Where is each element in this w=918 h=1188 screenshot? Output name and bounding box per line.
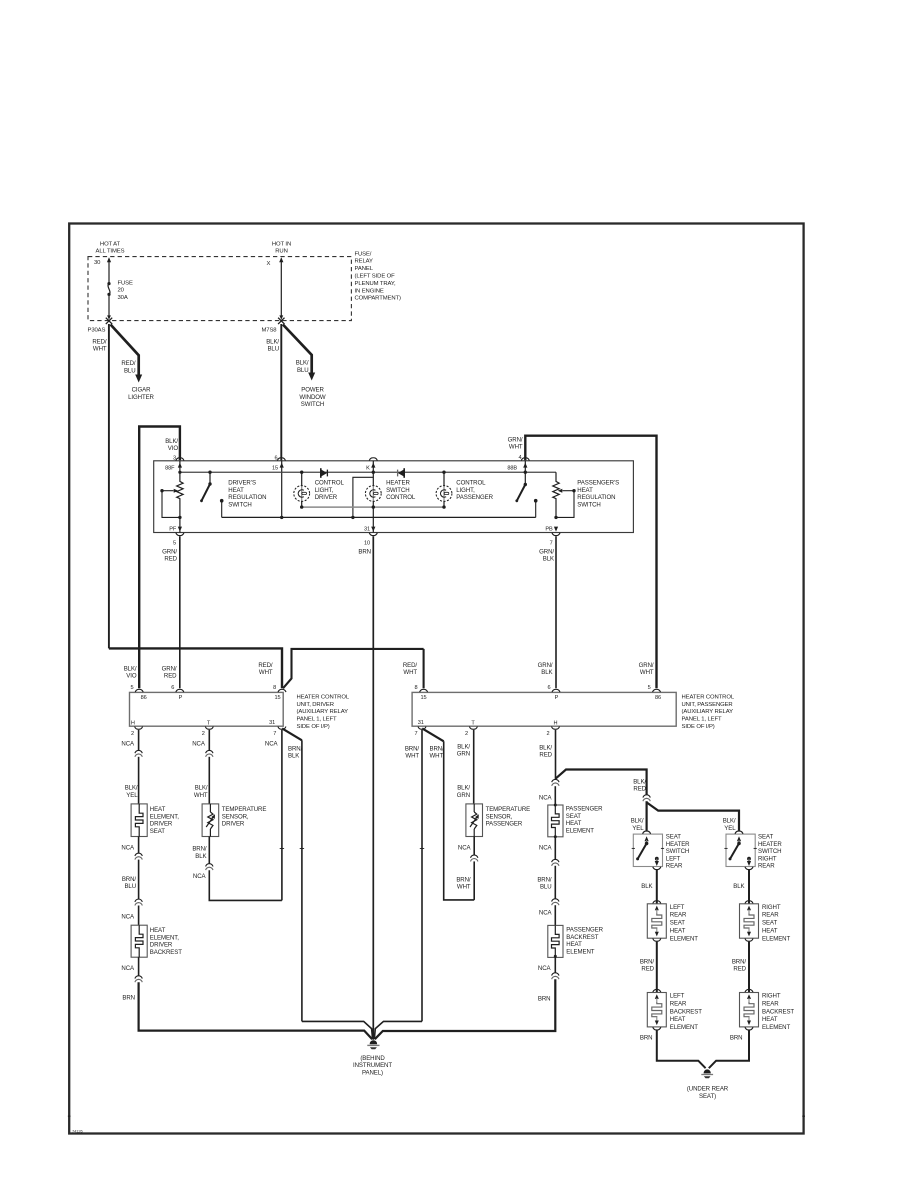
svg-text:ELEMENT: ELEMENT <box>566 828 594 835</box>
svg-text:PB: PB <box>545 527 553 533</box>
wire BRN/WHT passenger pin7 to ground <box>374 730 424 1039</box>
label CONTROL LIGHT, DRIVER <box>315 479 345 501</box>
svg-text:BLU: BLU <box>297 367 309 374</box>
svg-text:HOT AT: HOT AT <box>100 242 121 248</box>
label pin 4 <box>518 455 521 461</box>
label BRN passenger <box>538 996 551 1003</box>
heater control unit passenger box <box>412 692 676 726</box>
svg-text:ELEMENT,: ELEMENT, <box>150 813 179 820</box>
svg-text:SWITCH: SWITCH <box>301 401 324 408</box>
svg-text:BLK: BLK <box>541 669 552 676</box>
svg-text:SEAT: SEAT <box>666 834 681 841</box>
svg-text:LEFT: LEFT <box>670 904 685 911</box>
pin 31 internal <box>364 527 375 533</box>
wire sensor passenger return <box>473 837 475 900</box>
svg-text:ALL TIMES: ALL TIMES <box>96 249 125 255</box>
svg-text:PANEL 1, LEFT: PANEL 1, LEFT <box>682 717 722 723</box>
wire BLK/BLU from M7S8 to switch box pin 6 <box>280 324 282 461</box>
svg-text:WHT: WHT <box>93 346 107 353</box>
passenger unit pin 8 <box>414 685 427 701</box>
svg-text:ELEMENT,: ELEMENT, <box>150 934 179 941</box>
svg-text:M7S8: M7S8 <box>262 327 278 333</box>
heat element driver seat <box>131 804 147 837</box>
svg-text:TEMPERATURE: TEMPERATURE <box>222 806 267 813</box>
wire terminal X to M7S8 <box>279 257 283 320</box>
driver unit bottom pin 2 mid <box>202 727 214 738</box>
svg-text:WHT: WHT <box>509 444 523 451</box>
svg-text:HEATER CONTROL: HEATER CONTROL <box>682 695 735 701</box>
svg-text:PASSENGER’S: PASSENGER’S <box>577 479 619 486</box>
svg-text:HEAT: HEAT <box>566 941 582 948</box>
svg-text:2: 2 <box>131 731 134 737</box>
svg-text:HEATER CONTROL: HEATER CONTROL <box>297 695 350 701</box>
temperature sensor driver <box>202 804 219 837</box>
svg-text:BRN: BRN <box>122 995 135 1002</box>
label NCA above backrest <box>121 913 135 920</box>
driver's heat regulation switch resistor <box>177 472 183 517</box>
label BRN/RED left <box>640 958 655 972</box>
svg-text:TEMPERATURE: TEMPERATURE <box>486 806 531 813</box>
label NCA above passenger backrest <box>539 910 553 917</box>
svg-text:ELEMENT: ELEMENT <box>670 1024 698 1031</box>
svg-text:GRN/: GRN/ <box>639 662 654 669</box>
svg-text:BLK/: BLK/ <box>296 360 309 367</box>
svg-text:NCA: NCA <box>265 741 279 748</box>
driver unit bottom pin 2 left <box>131 727 143 738</box>
label PASSENGER BACKREST HEAT ELEMENT <box>566 926 603 955</box>
svg-text:RED/: RED/ <box>121 360 136 367</box>
in-line connector passenger BRN <box>552 973 559 980</box>
in-line connector BRN/BLU upper <box>135 853 142 860</box>
wire GRN/WHT pin4 riser to passenger unit pin5 <box>525 436 656 689</box>
svg-text:BRN/: BRN/ <box>732 958 747 965</box>
svg-text:BLU: BLU <box>124 367 136 374</box>
label BLK/YEL left <box>631 818 645 832</box>
svg-text:BLK: BLK <box>543 556 554 563</box>
label BRN/WHT passenger sensor <box>456 877 471 891</box>
label HOT IN RUN <box>272 242 291 255</box>
wire RED/BLU branch to cigar lighter <box>111 325 143 383</box>
label NCA passenger seat <box>539 794 553 801</box>
svg-text:LEFT: LEFT <box>670 993 685 1000</box>
svg-text:30A: 30A <box>118 295 128 301</box>
in-line connector passenger BRN/BLU lower <box>552 899 559 906</box>
svg-text:SEAT: SEAT <box>762 920 777 927</box>
svg-text:15: 15 <box>272 465 278 471</box>
ground behind instrument panel <box>367 1041 379 1050</box>
svg-text:NCA: NCA <box>539 910 553 917</box>
svg-text:6: 6 <box>171 685 174 691</box>
svg-text:BLK/: BLK/ <box>457 743 470 750</box>
svg-text:7: 7 <box>273 731 276 737</box>
diode CR2 <box>398 468 405 478</box>
svg-text:K: K <box>366 465 370 471</box>
svg-text:HEAT: HEAT <box>670 1016 686 1023</box>
svg-text:YEL: YEL <box>126 792 138 799</box>
svg-text:IN ENGINE: IN ENGINE <box>355 288 384 294</box>
svg-text:PASSENGER: PASSENGER <box>566 805 603 812</box>
pin 10 connector arc <box>364 533 377 547</box>
label BLK right <box>733 883 744 890</box>
wire driver seat to backrest <box>138 837 140 926</box>
label BRN <box>358 548 371 555</box>
label PASSENGER'S HEAT REGULATION SWITCH <box>577 479 619 508</box>
svg-text:2: 2 <box>465 731 468 737</box>
wire BRN left rear to ground <box>657 1030 706 1068</box>
svg-text:31: 31 <box>418 720 424 726</box>
svg-text:7: 7 <box>550 541 553 547</box>
label NCA driver seat <box>121 741 135 748</box>
svg-text:NCA: NCA <box>539 794 553 801</box>
right rear backrest heat element <box>740 989 795 1031</box>
svg-text:ELEMENT: ELEMENT <box>762 935 790 942</box>
label BRN/BLU <box>122 876 137 890</box>
svg-text:15: 15 <box>420 695 426 701</box>
wire BLK/YEL right rear switch feed <box>647 802 739 830</box>
in-line connector passenger sensor <box>471 855 478 862</box>
label TEMPERATURE SENSOR PASSENGER <box>486 806 531 828</box>
svg-text:PF: PF <box>169 527 177 533</box>
svg-text:WHT: WHT <box>259 669 273 676</box>
driver unit pin 31 <box>269 720 275 726</box>
svg-text:UNIT, DRIVER: UNIT, DRIVER <box>297 702 334 708</box>
label pin 6 top <box>274 455 277 461</box>
svg-text:LIGHT,: LIGHT, <box>456 487 475 494</box>
svg-text:31: 31 <box>364 527 370 533</box>
label GRN/BLK <box>539 548 554 562</box>
control light driver lamp <box>294 472 310 507</box>
svg-text:FUSE/: FUSE/ <box>355 251 372 257</box>
in-line connector sensor return <box>206 864 213 871</box>
svg-text:NCA: NCA <box>458 844 472 851</box>
svg-text:NCA: NCA <box>192 741 206 748</box>
svg-text:HEAT: HEAT <box>228 487 244 494</box>
svg-text:RED/: RED/ <box>92 339 107 346</box>
label NCA passenger sensor <box>458 844 472 851</box>
passenger backrest heat element <box>548 925 563 957</box>
label BRN/BLU passenger <box>537 877 552 891</box>
svg-text:PANEL 1, LEFT: PANEL 1, LEFT <box>297 717 337 723</box>
svg-text:WHT: WHT <box>403 669 417 676</box>
passenger unit bottom pin 2 left <box>465 727 477 738</box>
svg-text:CIGAR: CIGAR <box>132 387 151 394</box>
svg-text:PASSENGER: PASSENGER <box>456 494 493 501</box>
svg-text:INSTRUMENT: INSTRUMENT <box>353 1062 392 1069</box>
svg-text:SEAT: SEAT <box>758 834 773 841</box>
svg-text:RIGHT: RIGHT <box>758 855 777 862</box>
svg-text:BACKREST: BACKREST <box>762 1008 794 1015</box>
wire BLK right rear <box>748 870 750 904</box>
svg-text:BLK: BLK <box>195 853 206 860</box>
svg-text:NCA: NCA <box>539 844 553 851</box>
wire K bus <box>178 471 556 474</box>
wire BLK/RED from passenger pin2 <box>555 730 557 779</box>
label pin 3 <box>173 455 176 461</box>
wire BLK/YEL left rear switch feed <box>645 801 647 830</box>
svg-text:DRIVER: DRIVER <box>150 821 173 828</box>
label UNDER REAR SEAT <box>687 1086 729 1100</box>
svg-text:2: 2 <box>202 731 205 737</box>
svg-text:BLU: BLU <box>540 884 552 891</box>
svg-text:20: 20 <box>118 288 125 294</box>
passenger's heat regulation switch contact <box>534 499 538 518</box>
node 88F internal bus <box>165 461 182 472</box>
diode CR1 <box>321 468 328 478</box>
svg-text:HEAT: HEAT <box>150 927 166 934</box>
left rear backrest heat element <box>647 989 702 1031</box>
svg-text:WHT: WHT <box>194 792 208 799</box>
label BLK/RED <box>539 744 552 758</box>
label BLK/BLU branch <box>296 360 309 374</box>
svg-text:(UNDER REAR: (UNDER REAR <box>687 1086 729 1093</box>
svg-text:PANEL: PANEL <box>355 266 374 272</box>
svg-text:BLK/: BLK/ <box>195 785 208 792</box>
wire BLK/GRN to passenger sensor <box>473 730 475 804</box>
svg-text:HEAT: HEAT <box>150 806 166 813</box>
svg-text:LIGHTER: LIGHTER <box>128 394 154 401</box>
svg-text:HEAT: HEAT <box>762 928 778 935</box>
pin K connector arc <box>369 458 377 461</box>
wire BRN passenger backrest to ground <box>375 957 556 1039</box>
svg-text:BACKREST: BACKREST <box>150 949 182 956</box>
svg-text:BLK: BLK <box>733 883 744 890</box>
svg-text:BLK/: BLK/ <box>539 744 552 751</box>
passenger unit pin 6 <box>547 685 560 701</box>
svg-text:SIDE OF I/P): SIDE OF I/P) <box>682 724 715 730</box>
svg-text:SWITCH: SWITCH <box>758 848 781 855</box>
svg-text:8: 8 <box>414 685 417 691</box>
wire BRN right rear to ground <box>709 1030 749 1068</box>
label RED/WHT above passenger pin8 <box>403 662 418 676</box>
label POWER WINDOW SWITCH <box>299 387 325 408</box>
label NCA below passenger seat <box>539 844 553 851</box>
label FUSE 20 30A <box>118 280 133 301</box>
svg-text:SWITCH: SWITCH <box>577 502 600 509</box>
svg-text:RED/: RED/ <box>258 662 273 669</box>
in-line connector BRN <box>135 976 142 983</box>
svg-text:REGULATION: REGULATION <box>577 494 615 501</box>
svg-text:BRN/: BRN/ <box>537 877 552 884</box>
svg-text:CONTROL: CONTROL <box>386 494 416 501</box>
heater switch control box <box>154 461 634 533</box>
label BLK/GRN lower <box>457 785 471 799</box>
svg-text:SWITCH: SWITCH <box>228 502 251 509</box>
svg-text:BRN: BRN <box>730 1034 743 1041</box>
svg-text:BRN/: BRN/ <box>405 745 420 752</box>
svg-text:LEFT: LEFT <box>666 855 681 862</box>
wire GRN/BLK to passenger unit pin6 <box>555 536 557 688</box>
svg-text:88B: 88B <box>507 465 517 471</box>
label BLK/YEL <box>125 785 139 799</box>
temperature sensor passenger <box>466 804 483 837</box>
svg-text:SEAT: SEAT <box>566 813 581 820</box>
terminal 30 <box>94 260 101 266</box>
svg-text:BRN: BRN <box>640 1034 653 1041</box>
label BLK/VIO top <box>165 438 178 452</box>
svg-text:NCA: NCA <box>121 965 135 972</box>
svg-text:DRIVER: DRIVER <box>222 821 245 828</box>
passenger's heat regulation switch blade <box>515 472 527 502</box>
wire GRN/RED to driver unit pin6 <box>179 536 181 688</box>
svg-text:BLK/: BLK/ <box>631 818 644 825</box>
label GRN/WHT top <box>508 436 523 450</box>
wire BRN driver backrest to ground <box>139 957 373 1039</box>
svg-text:X: X <box>267 261 271 267</box>
label GRN/RED <box>162 548 178 562</box>
svg-text:DRIVER: DRIVER <box>315 494 338 501</box>
pin PB internal <box>545 527 558 533</box>
svg-text:SEAT: SEAT <box>150 828 165 835</box>
svg-text:BLU: BLU <box>124 883 136 890</box>
label NCA below backrest <box>121 965 135 972</box>
label BRN left rear <box>640 1034 653 1041</box>
svg-text:BLK: BLK <box>641 883 652 890</box>
svg-text:UNIT, PASSENGER: UNIT, PASSENGER <box>682 702 733 708</box>
svg-text:REAR: REAR <box>762 1000 779 1007</box>
node K internal wire <box>366 461 375 472</box>
svg-text:2: 2 <box>546 731 549 737</box>
driver's heat regulation switch blade <box>200 471 212 503</box>
label DRIVER'S HEAT REGULATION SWITCH <box>228 479 266 508</box>
label RED/BLU <box>121 360 136 374</box>
svg-text:8: 8 <box>273 685 276 691</box>
wire BLK left rear <box>656 870 658 904</box>
svg-text:SWITCH: SWITCH <box>386 487 409 494</box>
passenger unit pin T <box>471 720 475 726</box>
pin 4 connector arc <box>521 458 529 461</box>
svg-text:GRN: GRN <box>457 751 470 758</box>
svg-text:REAR: REAR <box>670 1000 687 1007</box>
svg-text:PANEL): PANEL) <box>362 1069 383 1076</box>
fuse/relay panel dashed box <box>88 257 351 321</box>
svg-text:GRN/: GRN/ <box>162 548 177 555</box>
label BLK/BLU <box>266 339 279 353</box>
wire to passenger seat element <box>554 786 556 805</box>
in-line connector BRN/BLU lower <box>135 899 142 906</box>
svg-text:86: 86 <box>655 695 661 701</box>
connector P30AS <box>88 318 113 334</box>
label NCA temp sensor <box>192 741 206 748</box>
control light passenger lamp <box>436 472 452 507</box>
svg-text:P: P <box>555 695 559 701</box>
wire BRN/RED left rear <box>656 942 658 993</box>
wire NCA temp sensor feed <box>208 730 210 804</box>
wire passenger seat to backrest <box>554 837 556 926</box>
svg-text:REAR: REAR <box>758 863 775 870</box>
svg-text:BRN/: BRN/ <box>456 877 471 884</box>
passenger's heat regulation switch resistor <box>553 472 559 517</box>
in-line connector passenger seat <box>552 779 559 786</box>
label pin7 BRN/WHT <box>405 745 420 759</box>
svg-text:BLK/: BLK/ <box>125 785 138 792</box>
pin 6 connector arc <box>277 458 285 461</box>
svg-text:BRN/: BRN/ <box>288 745 303 752</box>
label BRN/BLK sensor <box>192 846 207 860</box>
svg-text:RED: RED <box>641 966 654 973</box>
wire BRN/BLK pin7 to ground <box>282 728 373 1039</box>
svg-text:SWITCH: SWITCH <box>666 848 689 855</box>
svg-text:CONTROL: CONTROL <box>456 479 486 486</box>
svg-text:WHT: WHT <box>405 753 419 760</box>
svg-text:BLK/: BLK/ <box>457 785 470 792</box>
svg-text:DRIVER’S: DRIVER’S <box>228 479 256 486</box>
node 15 internal wire <box>272 461 284 518</box>
svg-text:H: H <box>554 720 558 726</box>
svg-text:SEAT: SEAT <box>670 920 685 927</box>
connector M7S8 <box>262 318 285 334</box>
label NCA below seat element <box>121 844 135 851</box>
label HOT AT ALL TIMES <box>96 242 125 255</box>
in-line connector BLK/RED rear <box>643 795 650 802</box>
svg-text:31: 31 <box>269 720 275 726</box>
svg-text:SENSOR,: SENSOR, <box>486 813 513 820</box>
svg-text:P30AS: P30AS <box>88 327 106 333</box>
label BLK/GRN upper <box>457 743 471 757</box>
label BEHIND INSTRUMENT PANEL <box>353 1055 392 1076</box>
svg-text:DRIVER: DRIVER <box>150 942 173 949</box>
label BLK/YEL right <box>723 818 737 832</box>
passenger unit pin 5 <box>648 685 661 701</box>
svg-text:6: 6 <box>547 685 550 691</box>
passenger seat heat element <box>548 804 563 839</box>
wire BRN/WHT riser to sensor <box>422 728 474 900</box>
wire BRN/BLK sensor return <box>209 837 282 901</box>
passenger unit bottom pin 2 right <box>546 727 559 738</box>
svg-text:RED: RED <box>164 556 177 563</box>
svg-text:BLK/: BLK/ <box>633 778 646 785</box>
label TEMPERATURE SENSOR DRIVER <box>222 806 267 828</box>
ground under rear seat <box>701 1070 713 1079</box>
wire BLK/VIO pin3 riser to driver unit pin5 <box>139 427 180 689</box>
svg-text:GRN/: GRN/ <box>508 436 523 443</box>
svg-text:BRN: BRN <box>358 548 371 555</box>
wire lamp return bus <box>300 505 446 508</box>
svg-text:REAR: REAR <box>666 863 683 870</box>
svg-text:VIO: VIO <box>168 445 179 452</box>
label BLK/VIO above pin5 <box>124 666 137 680</box>
svg-text:PASSENGER: PASSENGER <box>486 821 523 828</box>
in-line connector driver seat <box>135 750 142 757</box>
label NCA sensor return <box>193 873 207 880</box>
wire RED/WHT feed to driver pin8 <box>109 648 282 688</box>
svg-text:H: H <box>131 720 135 726</box>
svg-text:(LEFT SIDE OF: (LEFT SIDE OF <box>355 274 396 280</box>
driver unit bottom pin 7 <box>273 727 286 738</box>
svg-text:HEATER: HEATER <box>758 841 782 848</box>
svg-text:SIDE OF I/P): SIDE OF I/P) <box>297 724 330 730</box>
passenger's heat regulation switch wiper <box>554 489 575 519</box>
svg-text:BRN/: BRN/ <box>192 846 207 853</box>
seat heater switch left rear <box>632 831 690 870</box>
svg-text:WINDOW: WINDOW <box>299 394 325 401</box>
svg-text:POWER: POWER <box>301 387 324 394</box>
svg-text:NCA: NCA <box>121 844 135 851</box>
border frame <box>68 224 805 1134</box>
label CIGAR LIGHTER <box>128 387 154 401</box>
svg-text:BLK/: BLK/ <box>266 339 279 346</box>
wire BRN pin10 to ground <box>372 536 374 1040</box>
wire K bypass branch <box>353 477 373 517</box>
svg-text:WHT: WHT <box>640 669 654 676</box>
svg-text:NCA: NCA <box>121 913 135 920</box>
svg-text:HEAT: HEAT <box>566 820 582 827</box>
seat heater switch right rear <box>724 831 782 870</box>
svg-text:YEL: YEL <box>632 825 644 832</box>
passenger unit pin 31 <box>418 720 424 726</box>
svg-text:NCA: NCA <box>538 965 552 972</box>
label GRN/BLK above passenger pin6 <box>538 662 553 676</box>
svg-text:RED: RED <box>633 786 646 793</box>
